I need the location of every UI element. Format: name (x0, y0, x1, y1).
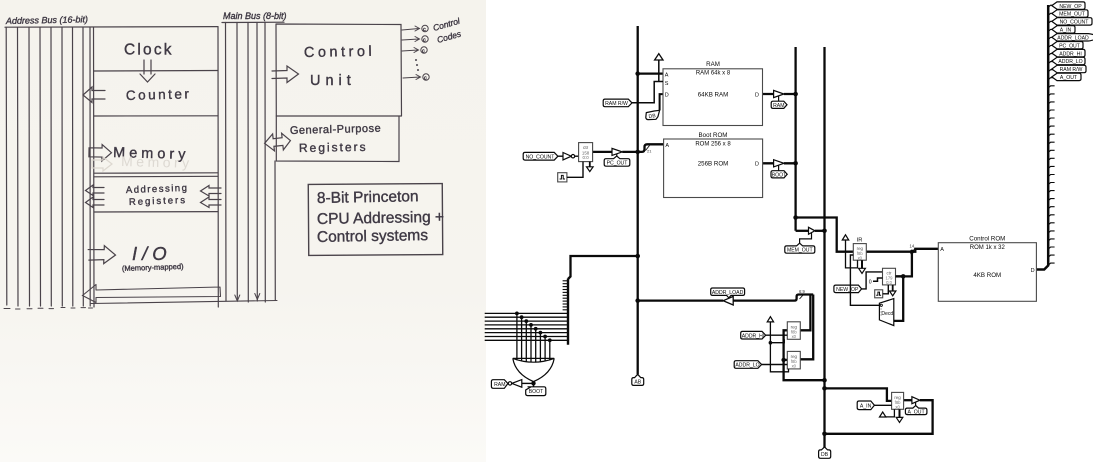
svg-text:D: D (755, 162, 759, 168)
wire AB to RAM A pin (638, 72, 663, 74)
wire Control ROM D to splitter (1036, 5, 1048, 270)
svg-text:ctr: ctr (583, 145, 589, 150)
svg-text:PC_OUT: PC_OUT (607, 161, 629, 167)
node junction ctr out (901, 274, 906, 279)
tunnel NEW_OP control bit (1052, 2, 1085, 10)
svg-text:ADDR_HI: ADDR_HI (1059, 51, 1082, 57)
node control code circle 2 (422, 36, 428, 42)
svg-text:A_IN: A_IN (1060, 28, 1072, 34)
tunnel BOOT select (526, 387, 546, 396)
wire bottom long arrow upper (83, 285, 221, 303)
wire splitter leg to ADDR_HI reg Q (800, 295, 810, 331)
svg-text:CPU Addressing +: CPU Addressing + (317, 209, 444, 228)
svg-text:BOOT: BOOT (529, 389, 543, 395)
wire IR out to ctr drop (895, 252, 912, 277)
wire CPU column left edge (93, 27, 96, 307)
tunnel MEM_OUT (785, 243, 815, 254)
svg-text:D: D (665, 93, 669, 99)
wire address bit lines (485, 313, 568, 340)
svg-text:NEW_OP: NEW_OP (1059, 4, 1082, 10)
wire memory bottom divider (94, 172, 218, 174)
tunnel MEM_OUT control bit (1052, 10, 1088, 18)
wire PC ctr out to PC_OUT buffer (593, 151, 612, 153)
node junction AB-PC (635, 150, 640, 155)
svg-text:MEM_OUT: MEM_OUT (787, 248, 814, 254)
wire io right block arrow (88, 245, 116, 264)
wire mem bus to MEM_OUT buffer (796, 230, 809, 232)
wire address bus 16-bit vertical lines (5, 28, 8, 306)
svg-text:0:0: 0:0 (583, 155, 590, 160)
svg-text:c: c (423, 27, 426, 33)
svg-text:Decd: Decd (881, 311, 893, 317)
clock arrow at A reg (880, 409, 895, 417)
svg-text:c: c (422, 49, 425, 55)
wire bottom long line lower (91, 301, 277, 304)
svg-text:4KB ROM: 4KB ROM (973, 272, 1001, 279)
svg-text:21: 21 (647, 149, 652, 154)
buffer RAM output (771, 90, 787, 108)
down arrow below PC ctr (587, 162, 594, 172)
wire control code arrow 3 (402, 48, 419, 53)
svg-text:I/O: I/O (132, 243, 172, 264)
tunnel RAM select (491, 380, 508, 389)
wire counter bottom divider (94, 115, 218, 117)
wire op ctr out (896, 275, 904, 277)
buffer MEM_OUT (800, 227, 815, 245)
svg-text:A_OUT: A_OUT (1060, 75, 1078, 81)
tunnel NO_COUNT (523, 152, 558, 160)
wire reg2 D stub (784, 359, 788, 361)
node junction BOOT out (793, 161, 798, 166)
wire control code arrow 1 (402, 26, 420, 31)
svg-text:ADDR_LO: ADDR_LO (735, 363, 759, 369)
tunnel ADDR_HI (741, 331, 766, 339)
wire DB to A reg D input (825, 388, 892, 401)
decoder Decd (879, 299, 893, 326)
wire clock/counter divider (94, 70, 218, 73)
svg-text:RAM 64k x 8: RAM 64k x 8 (696, 71, 731, 77)
tunnel A_OUT control bit (1052, 73, 1081, 81)
wire AB to address splitter stub (568, 256, 638, 279)
svg-text:Control: Control (304, 44, 376, 61)
wire A reg Q to buffer (904, 399, 912, 401)
wire RAM D out to bus (763, 93, 796, 95)
tunnel PC_OUT control bit (1052, 42, 1083, 50)
register A (892, 392, 904, 409)
svg-text:Control systems: Control systems (317, 227, 429, 246)
wire main bus top line (222, 21, 284, 23)
node junction OR out (531, 381, 535, 385)
node junction RAM out (793, 92, 798, 97)
svg-text:64KB RAM: 64KB RAM (698, 92, 729, 99)
node junction DB-memout (822, 229, 827, 234)
wire A_IN to reg (874, 404, 891, 406)
svg-text:S: S (665, 81, 669, 87)
general purpose registers box (276, 116, 401, 162)
down arrow below IR (859, 260, 866, 273)
svg-text:PC_OUT: PC_OUT (1059, 43, 1081, 49)
svg-text:14: 14 (910, 244, 915, 249)
node control code circle 3 (421, 47, 427, 53)
svg-text:ADDR_HI: ADDR_HI (742, 333, 765, 339)
node drop junction dots (515, 312, 552, 343)
svg-text:Control ROM: Control ROM (969, 235, 1005, 242)
node control code circle 1 (422, 25, 428, 31)
svg-text:A: A (665, 143, 669, 149)
svg-text:ADDR_LOAD: ADDR_LOAD (1057, 36, 1089, 42)
node junction DB-addr (822, 378, 827, 383)
wire CU left edge extension to bottom (274, 161, 276, 300)
svg-text:RAM: RAM (494, 382, 505, 388)
splitter AB address comb (563, 279, 568, 345)
clock source at op ctr (875, 285, 889, 298)
wire control code arrow 2 (402, 37, 420, 42)
svg-text:RAM: RAM (773, 103, 784, 109)
svg-text:A: A (665, 72, 669, 78)
wire address bit drops to OR gate (517, 313, 550, 362)
tunnel DB bottom (819, 447, 831, 458)
wire MEM_OUT buffer out to DB (815, 230, 825, 232)
svg-text:RAM R/W: RAM R/W (605, 101, 628, 107)
tunnel NO_COUNT control bit (1052, 18, 1092, 26)
wire tristate to address splitter jog (733, 295, 813, 301)
wire addr reg right arrows (201, 186, 222, 197)
wire control code arrow 4 (403, 75, 421, 80)
tunnel RAM R/W (603, 99, 632, 107)
svg-text:D: D (1031, 268, 1035, 274)
svg-text:Registers: Registers (299, 140, 368, 155)
wire OR out to inverter (522, 382, 534, 384)
svg-text:NEW_OP: NEW_OP (836, 287, 859, 293)
node junction DB-Ain (822, 386, 827, 391)
node control code circle 4 (423, 74, 429, 80)
clock arrow above RAM (655, 54, 663, 82)
wire addressing registers bottom divider (94, 211, 218, 213)
title box (308, 184, 442, 256)
wire NEW_OP vertical crossing label (849, 285, 851, 293)
svg-text:NO_COUNT: NO_COUNT (1060, 20, 1090, 26)
svg-text:ADDR_LO: ADDR_LO (1058, 59, 1082, 65)
node junction AB-ADDR (635, 298, 640, 303)
wire DB main vertical (823, 47, 825, 448)
inverter at PC ctr (563, 153, 579, 160)
svg-text:NO_COUNT: NO_COUNT (526, 154, 556, 160)
svg-text:Boot ROM: Boot ROM (699, 132, 728, 139)
tunnel ADDR_HI control bit (1052, 49, 1085, 57)
tunnel A_IN (857, 401, 874, 410)
buffer A_OUT (912, 397, 920, 408)
wire addr reg left arrows (86, 185, 105, 196)
wire ADDR_LOAD tristate to AB (638, 299, 724, 301)
node junction mem bus (793, 215, 798, 220)
svg-text:IR: IR (857, 238, 863, 244)
tunnel RAM R/W control bit (1052, 65, 1086, 73)
svg-text:Address Bus (16-bit): Address Bus (16-bit) (5, 14, 88, 26)
node junction DB-Aout (822, 432, 827, 437)
wire ADDR_LO to reg (762, 364, 788, 366)
tunnel PC_OUT (604, 156, 630, 167)
svg-text:x0: x0 (858, 255, 863, 260)
down arrow below A reg (896, 409, 903, 422)
svg-text:ROM 256 x 8: ROM 256 x 8 (695, 142, 731, 148)
wire main bus vertical lines (225, 23, 228, 302)
buffer PC_OUT (612, 148, 622, 158)
wire bus to CU block arrow (272, 66, 299, 83)
clock arrow at ADDR regs (767, 317, 788, 372)
wire clock to counter double arrow (140, 60, 155, 82)
wire RAM data bus vertical (794, 47, 796, 231)
wire AB vertical bus (637, 26, 639, 374)
svg-text:D: D (755, 92, 759, 98)
tunnel DB at RAM D (646, 110, 660, 120)
tunnel ADDR_LOAD control bit (1052, 34, 1093, 42)
wire RAM R/W to S pin (632, 82, 663, 103)
wire counter left block arrow (83, 87, 105, 103)
register ADDR_HI (787, 322, 800, 340)
wire mem bus to IR D (796, 218, 939, 252)
svg-text:Clock: Clock (124, 42, 174, 59)
counter op-step (883, 268, 896, 285)
svg-text:c: c (424, 76, 427, 82)
svg-text:Counter: Counter (126, 86, 192, 103)
svg-text:A_OUT: A_OUT (908, 409, 926, 415)
wire address bus top line (5, 26, 218, 29)
svg-text:x0: x0 (895, 404, 900, 409)
RAM component box (663, 61, 763, 126)
svg-text:Memory: Memory (121, 153, 193, 171)
wire CPU column right edge (217, 27, 219, 307)
tunnel A_IN control bit (1052, 26, 1075, 34)
svg-text:256B ROM: 256B ROM (698, 161, 729, 168)
svg-text:RAM: RAM (706, 61, 720, 68)
wire NO_COUNT to inverter (558, 155, 563, 157)
wire memory ghost arrow (92, 157, 112, 171)
svg-text:6:9: 6:9 (799, 289, 805, 294)
wire address bus bottom ticks (4, 308, 10, 310)
counter PC (579, 143, 593, 162)
tunnel ADDR_LO (734, 361, 761, 369)
wire 0 to ctr (873, 278, 883, 281)
svg-text:RAM R/W: RAM R/W (1060, 67, 1083, 73)
svg-text:ADDR_LOAD: ADDR_LOAD (712, 290, 744, 296)
svg-text:8-Bit Princeton: 8-Bit Princeton (317, 188, 419, 207)
wire A buffer out loop to DB (825, 400, 933, 434)
svg-text:A_IN: A_IN (860, 404, 872, 410)
clock arrow at IR (842, 235, 857, 268)
control unit box (276, 24, 402, 116)
tristate buffer ADDR_LOAD (723, 296, 733, 305)
svg-text:Unit: Unit (310, 73, 356, 89)
tunnel AB bottom (632, 374, 644, 385)
tunnel ADDR_LOAD (711, 288, 745, 298)
node junction reg2 D (781, 358, 785, 362)
svg-text:DB: DB (821, 452, 829, 458)
wire splitter leg to ADDR_LO reg Q (800, 295, 813, 360)
svg-text:Registers: Registers (129, 195, 187, 208)
svg-text:x0: x0 (792, 334, 797, 339)
svg-text:x0: x0 (792, 364, 797, 369)
svg-text:BOOT: BOOT (772, 172, 786, 178)
svg-text:MEM_OUT: MEM_OUT (1059, 12, 1086, 18)
wire BOOT D out to bus (763, 162, 796, 164)
wire ADDR_HI to reg (766, 334, 788, 336)
wire bus-GPR double arrow (264, 132, 292, 152)
wire NEW_OP to op ctr (862, 272, 883, 289)
ROM control box (938, 235, 1036, 301)
svg-text:AB: AB (634, 380, 641, 386)
node junction AB-RAMA (635, 71, 640, 76)
wire DB to ADDR reg D inputs (784, 330, 825, 380)
svg-text:DB: DB (648, 113, 656, 120)
OR gate boot detect (513, 358, 554, 386)
node junction AB-splitter (635, 254, 640, 259)
svg-text:0:0: 0:0 (886, 280, 892, 285)
register ADDR_LO (787, 351, 800, 369)
tunnel NEW_OP (834, 285, 862, 293)
register IR (853, 238, 866, 261)
wire PC_OUT to AB and Boot ROM A with jog (622, 144, 663, 152)
Boot ROM component box (664, 132, 763, 198)
wire IR enable to Decd input (850, 255, 879, 305)
wire DB tunnel near RAM D pin (660, 94, 663, 110)
node junction IRQ (910, 250, 914, 254)
wire memory right block arrow (89, 144, 112, 161)
buffer BOOT output (771, 160, 787, 179)
wire ctr out down to Decd output (894, 276, 903, 321)
svg-text:Main Bus (8-bit): Main Bus (8-bit) (223, 11, 287, 21)
node bus width mark at boot jog (646, 146, 650, 151)
node control codes dots (415, 59, 417, 61)
wire main bus bottom arrowheads (235, 295, 240, 301)
svg-text:Addressing: Addressing (126, 183, 189, 196)
tunnel A_OUT (905, 406, 927, 416)
tunnel ADDR_LO control bit (1052, 57, 1085, 65)
svg-text:General-Purpose: General-Purpose (290, 123, 382, 137)
wire addressing registers top divider (94, 175, 218, 178)
inverter RAM select (508, 380, 522, 388)
svg-text:A: A (940, 247, 944, 253)
splitter control word comb (1048, 5, 1054, 265)
svg-text:ROM 1k x 32: ROM 1k x 32 (970, 245, 1006, 251)
down arrow below op ctr (890, 285, 896, 296)
svg-text:c: c (423, 38, 426, 44)
clock source at PC (558, 162, 583, 182)
svg-text:0: 0 (869, 279, 872, 285)
